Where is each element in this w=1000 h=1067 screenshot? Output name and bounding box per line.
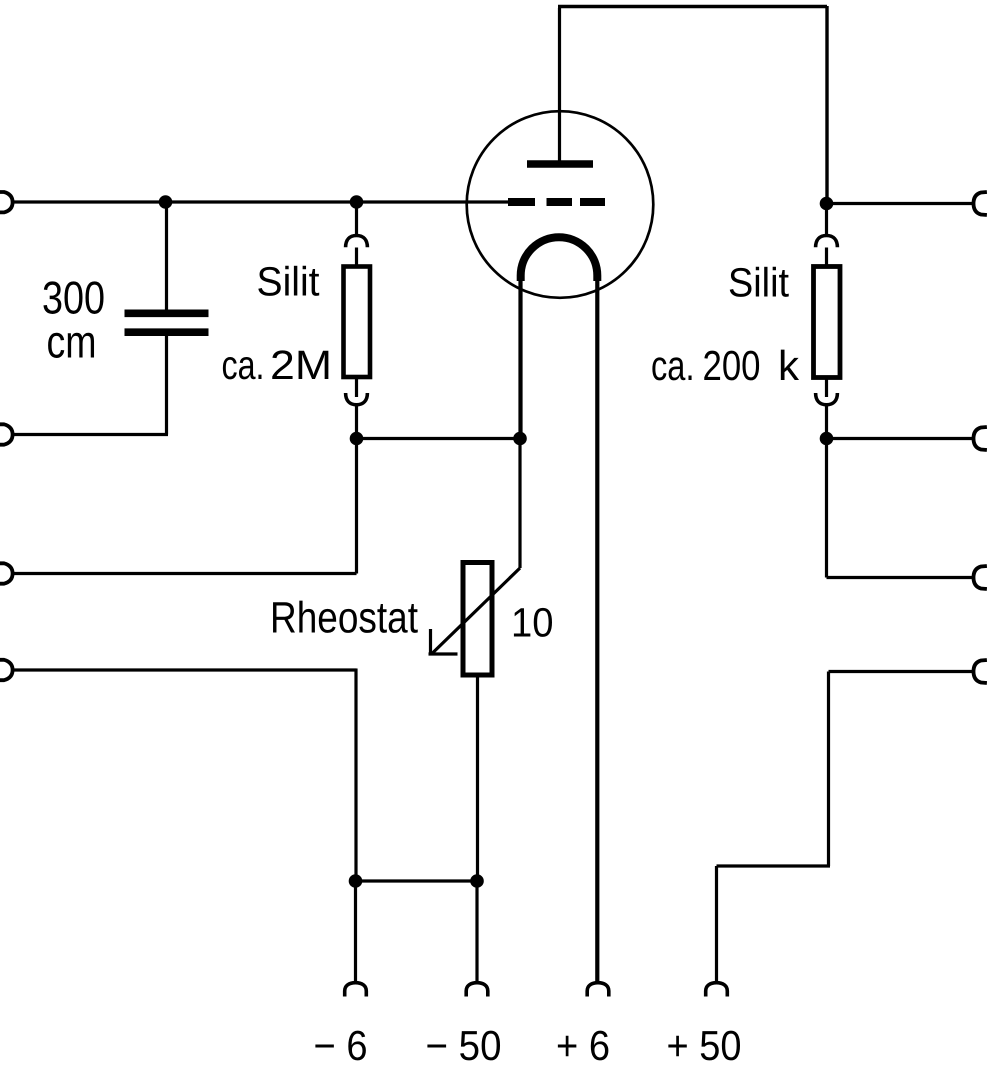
wire: cathode right leg down to +6 terminal — [595, 278, 599, 983]
svg-text:Silit: Silit — [257, 259, 321, 305]
terminal: mid left — [0, 563, 13, 583]
wire: top horizontal run — [558, 5, 827, 8]
rheostat bottom lead — [476, 675, 479, 881]
resistor R1 top clip — [346, 236, 368, 248]
wire: corner to lower-mid right terminal — [827, 576, 975, 579]
svg-text:+ 6: + 6 — [556, 1022, 610, 1067]
wire: -6 to -50 link — [356, 879, 478, 882]
terminal: -50 socket — [466, 983, 488, 997]
resistor R1 top lead tip — [355, 248, 358, 269]
wire: anode lead from tube plate up — [558, 8, 561, 162]
svg-text:ca.: ca. — [651, 342, 695, 389]
node: R1 bottom junction — [350, 432, 364, 446]
wire: R2 node to mid right terminal — [827, 437, 975, 440]
svg-text:k: k — [778, 342, 800, 389]
wire: lower-left terminal run — [12, 668, 357, 671]
tube V1 grid dash 2 — [547, 198, 573, 206]
terminal: output mid right — [974, 427, 987, 450]
tube V1 grid dash 1 — [508, 198, 535, 206]
rheostat wiper feed wire — [518, 439, 521, 569]
wire: lower-left corner down to -6 node — [354, 669, 357, 882]
wire: -6 node to terminal — [354, 881, 357, 983]
wire: R1 node to cathode node — [357, 437, 521, 440]
node: grid wire / grid-leak junction — [350, 195, 364, 209]
svg-text:− 6: − 6 — [314, 1022, 368, 1067]
svg-text:200: 200 — [703, 342, 761, 389]
wire: R1 node down to mid-left corner — [355, 439, 358, 574]
rheostat arrowhead vertical — [429, 629, 432, 656]
wire: R1 bottom clip to node — [355, 405, 358, 439]
terminal: input upper left — [0, 192, 13, 212]
resistor R1 bottom lead tip — [355, 377, 358, 397]
node: R2 bottom junction — [820, 432, 834, 446]
terminal: +6 socket — [587, 983, 609, 997]
svg-text:2M: 2M — [270, 342, 332, 388]
svg-text:ca.: ca. — [222, 342, 265, 388]
resistor R1 body (Silit ca.2M) — [344, 267, 371, 378]
node: -6 rail junction — [349, 874, 363, 888]
wire: lower-right terminal run — [829, 670, 975, 673]
terminal: lower right — [974, 660, 987, 683]
resistor R2 top clip — [816, 236, 838, 248]
terminal: -6 socket — [345, 983, 367, 997]
node: -50 rail junction — [470, 874, 484, 888]
tube V1 anode plate — [527, 160, 593, 168]
tube V1 envelope — [467, 111, 654, 298]
wire: node to R2 top clip — [825, 204, 828, 236]
tube V1 cathode dome — [521, 237, 598, 281]
wire: grid input run — [12, 200, 509, 203]
terminal: output upper right — [974, 192, 987, 215]
resistor R2 top lead tip — [825, 248, 828, 269]
resistor R1 bottom clip — [346, 393, 368, 405]
svg-text:Rheostat: Rheostat — [270, 594, 418, 643]
node: cathode junction — [513, 432, 527, 446]
wire: -50 node to terminal — [475, 881, 478, 983]
capacitor C1 bottom plate — [125, 328, 209, 336]
wire: anode node to upper right terminal — [827, 202, 975, 205]
rheostat arrowhead horizontal — [429, 652, 458, 655]
capacitor C1 top lead — [165, 200, 168, 310]
terminal: output lower-mid right — [974, 566, 987, 589]
wire: R2 node down to corner — [825, 439, 828, 578]
svg-text:Silit: Silit — [728, 260, 790, 306]
rheostat body — [463, 563, 492, 676]
wire: mid-left terminal run — [12, 572, 357, 575]
svg-text:10: 10 — [511, 600, 554, 646]
svg-text:cm: cm — [47, 316, 97, 368]
svg-text:+ 50: + 50 — [667, 1022, 742, 1067]
terminal: +50 socket — [706, 983, 728, 997]
terminal: input lower left — [0, 424, 13, 444]
wire: lower input run to capacitor — [12, 433, 168, 436]
wire: +50 horizontal jog — [717, 864, 831, 867]
resistor R2 bottom lead tip — [825, 378, 828, 398]
node: anode load top junction — [820, 197, 834, 211]
wire: R2 bottom clip to node — [825, 405, 828, 439]
node: grid wire / capacitor junction — [159, 195, 173, 209]
wire: node to R1 top clip — [355, 202, 358, 236]
svg-text:− 50: − 50 — [426, 1022, 502, 1067]
wire: +50 drop vertical — [827, 672, 830, 867]
wire: cathode left leg down to grid-return node — [518, 278, 522, 433]
wire: +50 final drop to terminal — [715, 866, 718, 983]
tube V1 grid dash 3 — [580, 198, 605, 206]
capacitor C1 bottom lead — [165, 336, 168, 435]
capacitor C1 top plate — [125, 309, 209, 317]
rheostat wiper diagonal — [432, 568, 520, 654]
resistor R2 body (Silit ca.200k) — [814, 267, 841, 378]
resistor R2 bottom clip — [816, 393, 838, 405]
wire: right vertical drop to anode-load node — [825, 6, 828, 200]
terminal: lower left — [0, 660, 13, 680]
